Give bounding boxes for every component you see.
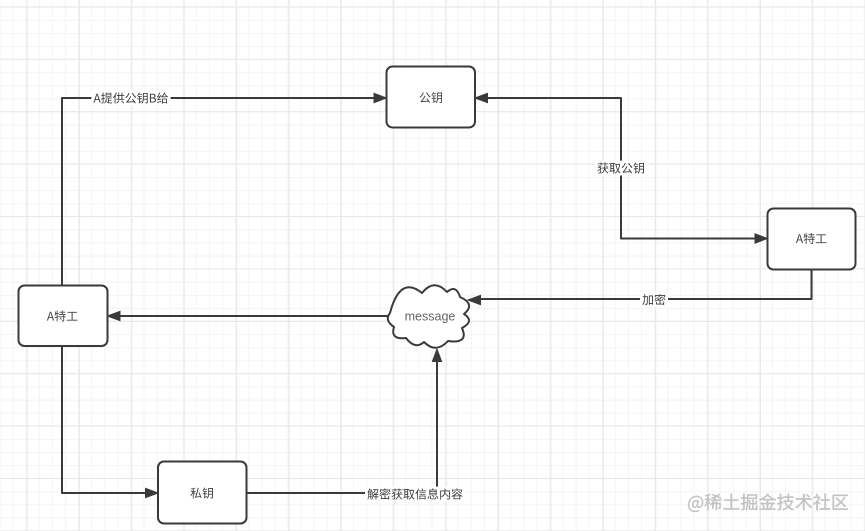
label A特工 right	[796, 233, 827, 244]
arrowhead into 私钥 left	[146, 488, 159, 497]
label 私钥	[190, 487, 213, 498]
arrowhead into A特工(left) right	[108, 311, 121, 320]
arrowhead into 公钥 left	[374, 93, 387, 102]
arrowhead into A特工(right) left	[755, 234, 768, 243]
wire 私钥 right to cloud bottom	[247, 355, 438, 493]
arrowhead into cloud right	[468, 295, 481, 304]
label A特工 left	[47, 310, 78, 321]
box 私钥 (private key)	[158, 462, 247, 524]
box 公钥 (public key)	[387, 67, 476, 128]
box A特工 right	[768, 209, 856, 270]
wire A特工(right) bottom to cloud right	[474, 270, 812, 300]
wire A特工(left) top to 公钥 left	[62, 98, 380, 286]
arrowhead into cloud bottom	[432, 349, 441, 362]
cloud message	[388, 285, 469, 348]
box A特工 left	[19, 286, 108, 347]
wire cloud left to A特工(left) right	[113, 315, 389, 317]
label 获取公钥	[595, 161, 647, 176]
label 公钥	[420, 92, 442, 103]
wire 公钥 right / A特工(right) left via x=622	[481, 98, 762, 239]
svg-text:message: message	[405, 310, 456, 324]
label 解密获取信息内容	[365, 487, 465, 502]
wire A特工(left) bottom to 私钥 left	[62, 346, 152, 493]
watermark @稀土掘金技术社区	[688, 494, 848, 512]
arrowhead into 公钥 right	[475, 93, 488, 102]
label 加密	[640, 292, 668, 307]
label A提供公钥B给	[91, 91, 170, 106]
